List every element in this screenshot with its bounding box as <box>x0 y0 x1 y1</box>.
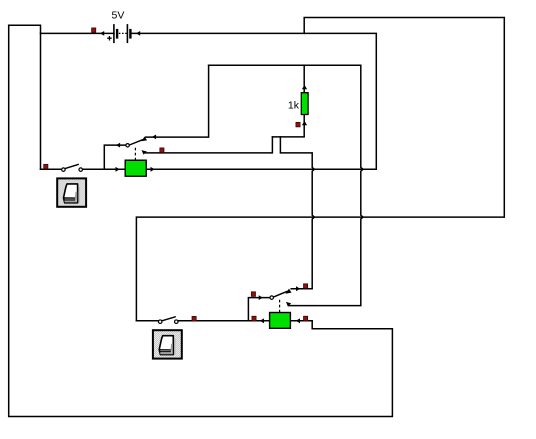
svg-text:1k: 1k <box>288 100 300 112</box>
svg-text:5V: 5V <box>112 10 125 22</box>
